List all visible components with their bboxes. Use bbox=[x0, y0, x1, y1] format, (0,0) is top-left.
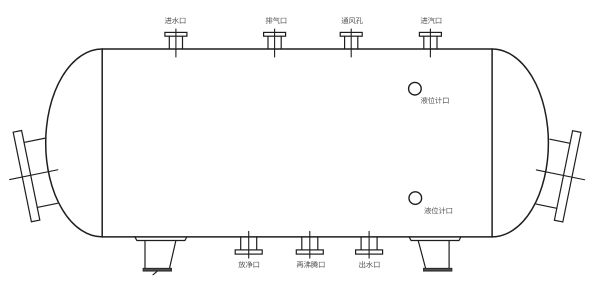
label: zaifeitengkou (reboil) bbox=[297, 261, 325, 268]
bottom nozzle fangjingkou (drain): centerline bbox=[248, 231, 250, 258]
side nozzle left manway: neck upper line bbox=[24, 138, 45, 142]
left saddle: anchor tick mark bbox=[153, 271, 157, 274]
label: jinshuikou (water inlet) bbox=[165, 17, 186, 24]
right elliptical head bbox=[492, 49, 548, 237]
label: fangjingkou (drain) bbox=[238, 261, 259, 268]
left saddle: wear plate bbox=[135, 237, 187, 241]
side nozzle left manway: neck lower line bbox=[37, 203, 57, 207]
top nozzle tongfengkong (vent hole): flange bbox=[340, 32, 362, 36]
side nozzle left manway (rotated group) bbox=[1, 125, 67, 224]
label: paiqikou (air vent) bbox=[266, 17, 287, 24]
left elliptical head bbox=[46, 49, 103, 237]
top nozzle jinshuikou (water inlet): neck bbox=[169, 36, 182, 49]
right saddle: wear plate bbox=[409, 237, 461, 241]
label: yeweijikou (level gauge, lower) bbox=[424, 207, 452, 214]
side nozzle left manway: flange bbox=[13, 130, 40, 221]
bottom nozzle fangjingkou (drain): flange bbox=[235, 250, 262, 254]
side nozzle right manway: neck upper line bbox=[536, 204, 557, 208]
top nozzle jinshuikou (water inlet): flange bbox=[165, 32, 187, 36]
vessel shell top line bbox=[102, 48, 492, 50]
vessel shell bottom line bbox=[102, 236, 492, 238]
bottom nozzle chushuikou (water outlet): neck bbox=[361, 237, 377, 250]
top nozzle jinqikou (steam inlet): flange bbox=[419, 32, 441, 36]
side nozzle right manway: neck lower line bbox=[550, 139, 570, 143]
label: yeweijikou (level gauge, upper) bbox=[421, 97, 449, 104]
label: chushuikou (water outlet) bbox=[359, 261, 379, 268]
bottom nozzle fangjingkou (drain): neck bbox=[241, 237, 257, 250]
side nozzle right manway: centerline bbox=[536, 170, 584, 180]
top nozzle tongfengkong (vent hole): centerline bbox=[350, 29, 352, 57]
top nozzle tongfengkong (vent hole): neck bbox=[345, 36, 358, 49]
label: jinqikou (steam inlet) bbox=[421, 17, 442, 24]
bottom nozzle chushuikou (water outlet): centerline bbox=[368, 231, 370, 258]
bottom nozzle chushuikou (water outlet): flange bbox=[356, 250, 383, 254]
side nozzle right manway (rotated group) bbox=[527, 125, 593, 224]
top nozzle jinqikou (steam inlet): centerline bbox=[429, 29, 431, 57]
level gauge port circle (lower) bbox=[409, 192, 422, 205]
level gauge port circle (upper) bbox=[409, 82, 422, 95]
bottom nozzle zaifeitengkou (reboil): centerline bbox=[309, 231, 311, 258]
top nozzle paiqikou (air vent): flange bbox=[264, 32, 286, 36]
right saddle: web (trapezoid sides) bbox=[418, 241, 449, 268]
left saddle: base plate bbox=[143, 268, 171, 271]
right head tangent line bbox=[491, 49, 493, 237]
top nozzle paiqikou (air vent): centerline bbox=[274, 29, 276, 57]
top nozzle jinqikou (steam inlet): neck bbox=[424, 36, 437, 49]
left saddle: web (trapezoid sides) bbox=[145, 241, 176, 268]
left head tangent line bbox=[101, 49, 103, 237]
top nozzle paiqikou (air vent): neck bbox=[268, 36, 281, 49]
bottom nozzle zaifeitengkou (reboil): flange bbox=[296, 250, 323, 254]
top nozzle jinshuikou (water inlet): centerline bbox=[175, 29, 177, 57]
side nozzle right manway: flange bbox=[554, 131, 581, 222]
label: tongfengkong (vent hole) bbox=[341, 17, 362, 24]
side nozzle left manway: centerline bbox=[10, 170, 58, 180]
right saddle: base plate bbox=[424, 268, 452, 271]
bottom nozzle zaifeitengkou (reboil): neck bbox=[302, 237, 318, 250]
